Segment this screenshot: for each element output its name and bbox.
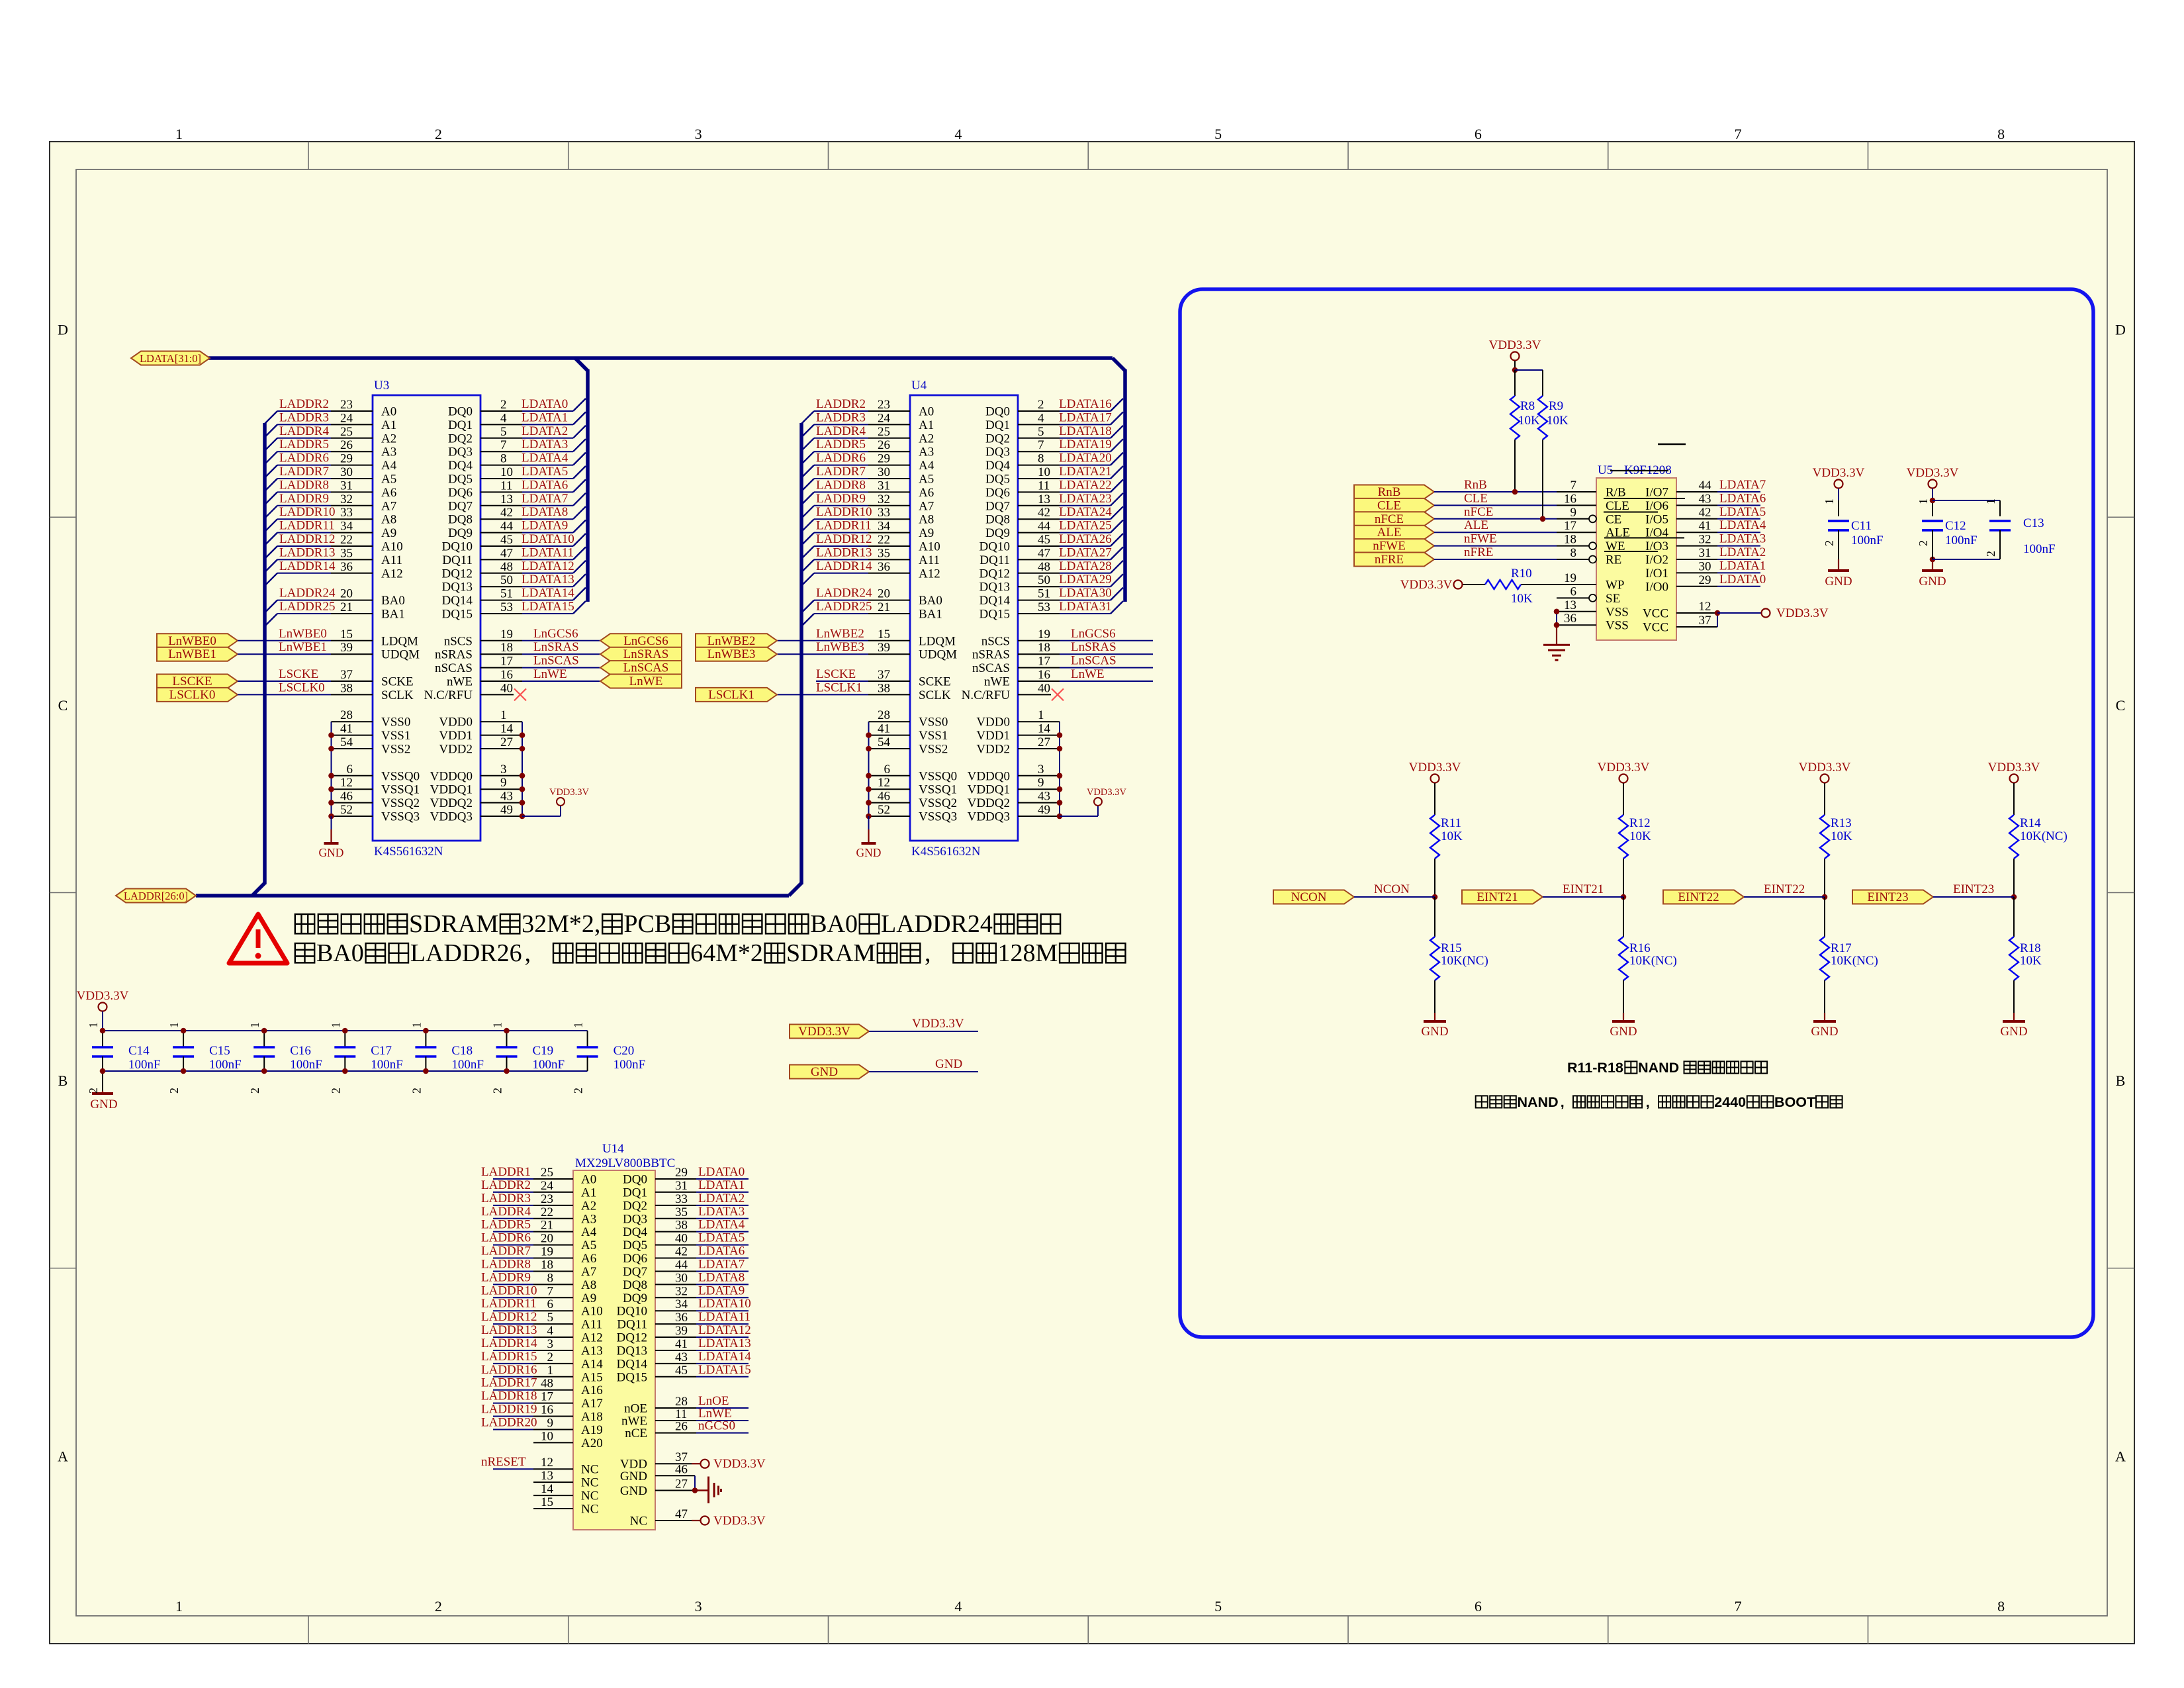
- svg-text:BA0: BA0: [810, 910, 858, 938]
- svg-text:47: 47: [675, 1507, 688, 1521]
- svg-text:DQ1: DQ1: [623, 1186, 647, 1199]
- svg-text:A: A: [2115, 1448, 2126, 1464]
- inner border frame: [76, 169, 2107, 1616]
- U3 pin 9 (VDDQ1): [480, 788, 522, 790]
- wire C12 to C13 bottom: [1933, 559, 2000, 560]
- svg-text:DQ3: DQ3: [623, 1212, 647, 1226]
- svg-text:I/O1: I/O1: [1645, 567, 1668, 581]
- svg-text:nSRAS: nSRAS: [972, 648, 1010, 662]
- wire I/O2 net LDATA2: [1717, 559, 1760, 560]
- svg-text:SCLK: SCLK: [381, 688, 414, 702]
- U14 pin 46 (GND): [655, 1475, 695, 1476]
- junction node EINT21: [1621, 894, 1627, 900]
- wire nSCS net LnGCS6: [522, 640, 600, 641]
- wire DQ10 to LDATA10 bus entry: [522, 545, 573, 547]
- svg-text:53: 53: [500, 600, 513, 614]
- NOR flash chip U14 body: [573, 1170, 655, 1530]
- VDD3.3V power port above R14: [2010, 774, 2019, 783]
- wire C12 to C13 top: [1933, 500, 2000, 501]
- svg-text:50: 50: [500, 573, 513, 587]
- svg-text:LADDR9: LADDR9: [279, 492, 329, 506]
- svg-text:1: 1: [491, 1022, 504, 1028]
- port flag LnWBE3: [696, 647, 777, 661]
- svg-text:44: 44: [1699, 479, 1712, 492]
- svg-text:nFRE: nFRE: [1464, 545, 1493, 559]
- svg-text:24: 24: [541, 1179, 554, 1193]
- svg-text:nFWE: nFWE: [1373, 539, 1406, 553]
- svg-text:51: 51: [1038, 587, 1050, 601]
- svg-text:15: 15: [541, 1495, 553, 1509]
- wire LADDR12 to U3.A10 with bus entry: [265, 546, 277, 559]
- wire LADDR9 to U3.A7 with bus entry: [265, 506, 277, 518]
- svg-text:17: 17: [541, 1390, 553, 1404]
- svg-text:LSCLK0: LSCLK0: [279, 680, 325, 694]
- svg-text:LADDR7: LADDR7: [816, 465, 866, 479]
- svg-text:VDD3.3V: VDD3.3V: [1489, 338, 1541, 352]
- svg-text:52: 52: [878, 803, 890, 817]
- svg-text:17: 17: [500, 655, 513, 669]
- U14 pin 28 (nOE): [655, 1407, 696, 1409]
- svg-text:42: 42: [1699, 506, 1711, 520]
- svg-text:LnOE: LnOE: [698, 1394, 729, 1408]
- svg-text:RE: RE: [1606, 553, 1621, 567]
- wire LADDR15 to U14.A14: [493, 1363, 533, 1364]
- wire R15 to ground: [1434, 980, 1435, 1013]
- svg-text:U14: U14: [602, 1142, 624, 1156]
- junction top: [504, 1028, 510, 1034]
- U3 pin 18 (nSRAS): [480, 653, 522, 655]
- U5 pin 9 (CE): [1557, 518, 1589, 520]
- U3 VDD3.3V power port: [557, 798, 565, 806]
- svg-text:47: 47: [500, 546, 513, 560]
- svg-text:42: 42: [1038, 506, 1050, 520]
- svg-text:R11: R11: [1441, 816, 1461, 830]
- svg-text:VSSQ2: VSSQ2: [919, 796, 957, 810]
- U14 pin 12 (NC) nRESET: [493, 1468, 533, 1470]
- wire DQ11 net LDATA11: [696, 1323, 749, 1325]
- svg-text:GND: GND: [620, 1484, 647, 1498]
- svg-text:DQ9: DQ9: [448, 526, 473, 540]
- svg-text:LDATA0: LDATA0: [698, 1165, 745, 1179]
- U3 pin 10 (DQ5): [480, 478, 522, 479]
- svg-text:12: 12: [340, 776, 353, 790]
- svg-text:VDD3.3V: VDD3.3V: [912, 1017, 964, 1031]
- U5 pin 43 (I/O6): [1676, 504, 1717, 506]
- svg-text:A1: A1: [919, 418, 934, 432]
- U14 pin 4 (A12): [533, 1336, 573, 1338]
- U3 pin 29 (A4): [331, 465, 373, 466]
- svg-text:12: 12: [1699, 600, 1711, 614]
- U5 pin 30 (I/O1): [1676, 572, 1717, 573]
- U14 pin 20 (A5): [533, 1244, 573, 1246]
- svg-text:LDATA7: LDATA7: [698, 1257, 745, 1271]
- U3 pin 52 (VSSQ3): [332, 816, 373, 817]
- svg-text:LDATA6: LDATA6: [698, 1244, 745, 1258]
- resistor R16: [1619, 937, 1628, 980]
- wire DQ8 to LDATA24 bus entry: [1060, 518, 1111, 520]
- wire LADDR25 to U3.BA1 with bus entry: [265, 614, 277, 626]
- U14 pin 15 (NC): [533, 1508, 573, 1509]
- U4 pin 40 (N.C/RFU) no-connect: [1018, 694, 1051, 695]
- svg-text:LADDR16: LADDR16: [481, 1363, 537, 1377]
- svg-text:1: 1: [572, 1022, 585, 1028]
- svg-text:LnSRAS: LnSRAS: [533, 640, 579, 654]
- svg-text:DQ1: DQ1: [448, 418, 473, 432]
- svg-text:4: 4: [500, 411, 507, 425]
- junction: [1554, 609, 1560, 615]
- svg-text:46: 46: [675, 1462, 688, 1476]
- svg-text:R/B: R/B: [1606, 486, 1626, 500]
- svg-text:2: 2: [500, 398, 507, 412]
- svg-text:VDDQ3: VDDQ3: [968, 810, 1010, 824]
- wire VDD3.3V net: [869, 1031, 978, 1032]
- svg-text:VDD3.3V: VDD3.3V: [1988, 761, 2040, 774]
- svg-text:17: 17: [1038, 655, 1050, 669]
- U3 pin 28 (VSS0): [332, 721, 373, 722]
- svg-text:I/O7: I/O7: [1645, 486, 1668, 500]
- wire LADDR5 to U4.A3 with bus entry: [801, 451, 814, 464]
- svg-text:VDD3.3V: VDD3.3V: [1907, 466, 1959, 480]
- svg-text:VSSQ1: VSSQ1: [381, 783, 420, 797]
- U14 pin 30 (DQ8): [655, 1284, 696, 1285]
- svg-text:C11: C11: [1851, 519, 1872, 533]
- wire DQ8 to LDATA8 bus entry: [522, 518, 573, 520]
- U5 active-low bars: [1604, 498, 1685, 499]
- svg-text:nWE: nWE: [984, 675, 1010, 689]
- junction: [328, 786, 334, 792]
- svg-text:A8: A8: [381, 513, 396, 527]
- svg-text:NAND: NAND: [1638, 1060, 1683, 1076]
- svg-text:I/O4: I/O4: [1645, 526, 1668, 540]
- svg-text:ALE: ALE: [1606, 526, 1630, 540]
- svg-text:2: 2: [87, 1088, 100, 1094]
- svg-text:VSS2: VSS2: [919, 743, 948, 757]
- svg-text:LADDR3: LADDR3: [481, 1192, 531, 1205]
- svg-text:LADDR8: LADDR8: [279, 478, 329, 492]
- wire I/O0 net LDATA0: [1717, 586, 1760, 587]
- svg-text:40: 40: [675, 1232, 688, 1246]
- svg-text:19: 19: [500, 628, 513, 641]
- svg-text:37: 37: [1699, 614, 1711, 628]
- svg-text:VSS: VSS: [1606, 619, 1629, 633]
- svg-text:A0: A0: [381, 405, 396, 419]
- VDD3.3V power port above R8: [1511, 352, 1520, 361]
- svg-text:nSRAS: nSRAS: [435, 648, 473, 662]
- svg-text:LADDR10: LADDR10: [816, 505, 872, 519]
- wire LADDR8 to U4.A6 with bus entry: [801, 492, 814, 504]
- svg-text:WP: WP: [1606, 579, 1625, 592]
- svg-text:8: 8: [500, 452, 507, 466]
- wire LADDR24 to U4.BA0 with bus entry: [801, 600, 814, 613]
- svg-text:CLE: CLE: [1606, 499, 1629, 513]
- svg-text:VDDQ2: VDDQ2: [430, 796, 473, 810]
- VDD3.3V power port above R11: [1431, 774, 1439, 783]
- svg-text:27: 27: [675, 1477, 688, 1491]
- port flag GND: [790, 1065, 869, 1079]
- U4 pin 19 (nSCS): [1018, 640, 1060, 641]
- wire LADDR24 to U3.BA0 with bus entry: [265, 600, 277, 613]
- U4 pin 53 (DQ15): [1018, 613, 1060, 614]
- svg-text:SE: SE: [1606, 592, 1620, 606]
- svg-text:29: 29: [340, 452, 353, 466]
- svg-text:LDQM: LDQM: [381, 634, 418, 648]
- svg-text:,: ,: [1561, 1094, 1565, 1110]
- svg-text:GND: GND: [1610, 1025, 1637, 1039]
- junction: [328, 746, 334, 752]
- U14 pin 2 (A14): [533, 1363, 573, 1364]
- svg-text:1: 1: [175, 1598, 183, 1615]
- junction: [1715, 610, 1721, 616]
- svg-text:EINT21: EINT21: [1477, 890, 1518, 904]
- svg-text:10K(NC): 10K(NC): [2020, 829, 2068, 843]
- svg-text:LnWBE2: LnWBE2: [707, 634, 756, 648]
- svg-text:2: 2: [547, 1350, 554, 1364]
- U4 pin 36 (A12): [868, 573, 910, 574]
- svg-text:8: 8: [1570, 546, 1577, 560]
- svg-text:VSS: VSS: [1606, 605, 1629, 619]
- svg-text:DQ13: DQ13: [979, 581, 1010, 594]
- svg-text:LSCLK0: LSCLK0: [169, 688, 216, 702]
- svg-text:LADDR24: LADDR24: [881, 910, 993, 938]
- SDRAM chip U4 outline: [910, 395, 1018, 841]
- svg-text:LDQM: LDQM: [919, 634, 956, 648]
- port flag nFCE: [1354, 512, 1434, 526]
- wire DQ8 net LDATA8: [696, 1284, 749, 1285]
- U4 pin 31 (A6): [868, 491, 910, 492]
- svg-text:VDD1: VDD1: [976, 729, 1010, 743]
- wire LnWBE3 to U4.UDQM: [777, 653, 868, 655]
- wire VDD to R11: [1434, 783, 1435, 815]
- port flag LSCKE: [157, 675, 238, 688]
- svg-text:15: 15: [340, 628, 353, 641]
- U4 pin 18 (nSRAS): [1018, 653, 1060, 655]
- capacitor C14: [102, 1031, 103, 1047]
- svg-text:LDATA15: LDATA15: [522, 600, 574, 614]
- svg-text:LSCLK1: LSCLK1: [708, 688, 754, 702]
- svg-text:53: 53: [1038, 600, 1050, 614]
- U4 pin 42 (DQ8): [1018, 518, 1060, 520]
- U3 pin 14 (VDD1): [480, 735, 522, 736]
- svg-text:24: 24: [878, 411, 891, 425]
- svg-text:LDATA22: LDATA22: [1059, 478, 1112, 492]
- svg-text:LADDR7: LADDR7: [481, 1244, 531, 1258]
- junction: [328, 732, 334, 738]
- capacitor C17: [344, 1031, 345, 1047]
- port flag RnB: [1354, 485, 1434, 499]
- svg-text:A5: A5: [919, 473, 934, 487]
- svg-text:DQ0: DQ0: [623, 1173, 647, 1187]
- svg-text:LADDR13: LADDR13: [481, 1323, 537, 1337]
- junction node NCON: [1432, 894, 1438, 900]
- wire LADDR13 to U14.A12: [493, 1336, 533, 1338]
- svg-text:LADDR13: LADDR13: [279, 545, 335, 559]
- svg-text:49: 49: [500, 803, 513, 817]
- U14 pin 18 (A7): [533, 1270, 573, 1272]
- svg-text:LADDR24: LADDR24: [816, 586, 872, 600]
- svg-text:LDATA28: LDATA28: [1059, 559, 1112, 573]
- svg-text:BA0: BA0: [381, 594, 405, 608]
- svg-text:5: 5: [1214, 126, 1222, 142]
- svg-text:22: 22: [878, 533, 890, 547]
- wire LADDR13 to U4.A11 with bus entry: [801, 559, 814, 572]
- ground symbol below R15: [1434, 1013, 1435, 1021]
- U3 pin 38 (SCLK): [331, 694, 373, 695]
- U5 pin 7 (R/B): [1557, 491, 1596, 492]
- svg-text:LDATA13: LDATA13: [698, 1336, 751, 1350]
- svg-text:LDATA29: LDATA29: [1059, 573, 1112, 586]
- U3 pin 31 (A6): [331, 491, 373, 492]
- SDRAM chip U3 outline: [373, 395, 480, 841]
- svg-text:LDATA5: LDATA5: [1719, 505, 1766, 519]
- U5 pin 6 (SE): [1557, 597, 1589, 598]
- U3 pin 42 (DQ8): [480, 518, 522, 520]
- svg-text:DQ12: DQ12: [617, 1331, 647, 1345]
- wire LADDR14 to U14.A13: [493, 1350, 533, 1351]
- wire LADDR7 to U4.A5 with bus entry: [801, 479, 814, 491]
- svg-text:A6: A6: [581, 1252, 596, 1266]
- svg-text:A6: A6: [919, 486, 934, 500]
- wire DQ9 to LDATA9 bus entry: [522, 532, 573, 534]
- svg-text:DQ13: DQ13: [617, 1344, 647, 1358]
- wire bottom rail of capacitor bank: [103, 1070, 588, 1072]
- svg-text:LADDR11: LADDR11: [816, 519, 872, 533]
- svg-text:B: B: [2116, 1072, 2126, 1089]
- svg-text:GND: GND: [620, 1470, 647, 1483]
- svg-text:100nF: 100nF: [209, 1058, 242, 1072]
- svg-text:LnWBE1: LnWBE1: [279, 640, 327, 654]
- bus elbow U4 address: [789, 883, 801, 896]
- junction bottom: [181, 1068, 187, 1074]
- wire DQ15 to LDATA31 bus entry: [1060, 613, 1111, 614]
- svg-text:R14: R14: [2020, 816, 2041, 830]
- U3 pin 41 (VSS1): [332, 735, 373, 736]
- wire LADDR6 to U3.A4 with bus entry: [265, 465, 277, 478]
- U14 pin 21 (A4): [533, 1231, 573, 1233]
- svg-text:3: 3: [500, 763, 507, 776]
- U14 pin 43 (DQ14): [655, 1363, 696, 1364]
- U4 pin 33 (A8): [868, 518, 910, 520]
- svg-text:LDATA11: LDATA11: [698, 1310, 751, 1324]
- wire DQ13 net LDATA13: [696, 1350, 749, 1351]
- bus vertical U4 address: [799, 423, 803, 884]
- wire LADDR12 to U4.A10 with bus entry: [801, 546, 814, 559]
- wire VCC join: [1717, 613, 1718, 627]
- svg-text:LADDR17: LADDR17: [481, 1376, 537, 1390]
- junction: [328, 814, 334, 820]
- svg-text:128M: 128M: [998, 939, 1058, 967]
- svg-text:11: 11: [500, 479, 512, 492]
- wire EINT22 to node: [1744, 896, 1825, 898]
- svg-text:LADDR4: LADDR4: [816, 424, 866, 438]
- svg-text:23: 23: [340, 398, 353, 412]
- wire nSCS net LnGCS6: [1060, 640, 1153, 641]
- svg-text:ALE: ALE: [1464, 518, 1488, 532]
- svg-text:SDRAM: SDRAM: [409, 910, 498, 938]
- wire DQ4 to LDATA20 bus entry: [1060, 465, 1111, 466]
- svg-text:VSSQ2: VSSQ2: [381, 796, 420, 810]
- U14 pin 48 (A16): [533, 1389, 573, 1391]
- svg-text:LSCLK1: LSCLK1: [816, 680, 862, 694]
- port flag LSCLK0: [157, 688, 238, 702]
- svg-text:EINT22: EINT22: [1764, 882, 1805, 896]
- svg-text:32M*2,: 32M*2,: [522, 910, 600, 938]
- resistor R8: [1514, 370, 1516, 396]
- warning exclamation mark: [256, 929, 261, 948]
- svg-text:U3: U3: [374, 379, 389, 393]
- VDD3.3V power port above R13: [1821, 774, 1829, 783]
- U3 pin 13 (DQ7): [480, 505, 522, 506]
- svg-text:LDATA12: LDATA12: [698, 1323, 751, 1337]
- U3 pin 46 (VSSQ2): [332, 802, 373, 804]
- svg-text:LDATA4: LDATA4: [698, 1218, 745, 1232]
- U14 pin 19 (A6): [533, 1258, 573, 1259]
- svg-text:LADDR24: LADDR24: [279, 586, 336, 600]
- svg-text:NC: NC: [581, 1489, 598, 1503]
- svg-text:25: 25: [541, 1166, 553, 1180]
- svg-text:33: 33: [675, 1192, 688, 1206]
- svg-text:LDATA3: LDATA3: [698, 1205, 745, 1219]
- svg-text:LADDR10: LADDR10: [481, 1284, 537, 1297]
- svg-text:4: 4: [954, 1598, 962, 1615]
- wire LADDR12 to U14.A11: [493, 1323, 533, 1325]
- ground symbol below R18: [2013, 1013, 2015, 1021]
- svg-text:100nF: 100nF: [2023, 542, 2056, 556]
- svg-text:DQ4: DQ4: [623, 1225, 647, 1239]
- svg-text:44: 44: [675, 1258, 688, 1272]
- svg-text:DQ2: DQ2: [623, 1199, 647, 1213]
- wire LnWBE2 to U4.LDQM: [777, 640, 868, 641]
- svg-text:I/O6: I/O6: [1645, 499, 1668, 513]
- wire LSCKE to U4.SCKE: [816, 680, 868, 682]
- svg-text:9: 9: [1570, 506, 1577, 520]
- wire NCON to node: [1354, 896, 1435, 898]
- wire LADDR2 to U3.A0 with bus entry: [265, 411, 277, 424]
- wire nSRAS net LnSRAS: [1060, 653, 1153, 655]
- junction node EINT22: [1822, 894, 1828, 900]
- svg-text:NAND: NAND: [1518, 1094, 1559, 1110]
- svg-text:LADDR1: LADDR1: [481, 1165, 531, 1179]
- svg-text:U4: U4: [911, 379, 927, 393]
- U4 pin 22 (A10): [868, 545, 910, 547]
- U4 pin 15 (LDQM): [868, 640, 910, 641]
- svg-text:DQ11: DQ11: [979, 553, 1010, 567]
- svg-text:A2: A2: [919, 432, 934, 445]
- U4 pin 45 (DQ10): [1018, 545, 1060, 547]
- svg-text:SCKE: SCKE: [381, 675, 414, 689]
- wire LADDR16 to U14.A15: [493, 1376, 533, 1378]
- U14 pin 24 (A1): [533, 1192, 573, 1193]
- svg-text:48: 48: [500, 560, 513, 574]
- svg-text:NC: NC: [581, 1463, 598, 1477]
- U4 pin 39 (UDQM): [868, 653, 910, 655]
- capacitor C13: [1999, 500, 2001, 516]
- svg-text:GND: GND: [1825, 575, 1852, 588]
- U4 pin 28 (VSS0): [869, 721, 911, 722]
- bus vertical U3 data: [586, 369, 590, 602]
- wire R12 to node: [1623, 859, 1624, 897]
- port flag CLE: [1354, 498, 1434, 512]
- wire LADDR14 to U3.A12 with bus entry: [265, 573, 277, 586]
- svg-text:2: 2: [167, 1088, 181, 1094]
- svg-text:EINT23: EINT23: [1867, 890, 1908, 904]
- svg-text:DQ5: DQ5: [985, 473, 1010, 487]
- svg-text:21: 21: [340, 600, 353, 614]
- ground at C14: [102, 1071, 103, 1091]
- svg-text:LDATA[31:0]: LDATA[31:0]: [140, 352, 201, 365]
- wire LADDR8 to U3.A6 with bus entry: [265, 492, 277, 504]
- U5 pin 18 (WE): [1557, 545, 1589, 547]
- svg-text:10K(NC): 10K(NC): [1831, 954, 1878, 968]
